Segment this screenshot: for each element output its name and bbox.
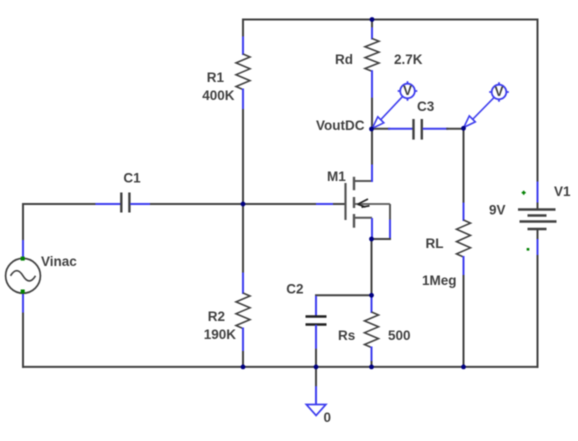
svg-text:V: V bbox=[403, 83, 412, 98]
svg-text:9V: 9V bbox=[489, 203, 506, 218]
svg-text:500: 500 bbox=[388, 328, 411, 343]
svg-text:C2: C2 bbox=[286, 282, 303, 297]
svg-text:1Meg: 1Meg bbox=[422, 273, 457, 288]
svg-text:190K: 190K bbox=[204, 327, 237, 342]
svg-text:Rd: Rd bbox=[335, 52, 353, 67]
svg-text:VoutDC: VoutDC bbox=[316, 118, 365, 133]
svg-text:C1: C1 bbox=[123, 171, 141, 186]
svg-text:RL: RL bbox=[426, 236, 444, 251]
svg-text:V1: V1 bbox=[554, 184, 571, 199]
svg-text:R2: R2 bbox=[208, 309, 225, 324]
svg-text:400K: 400K bbox=[202, 88, 235, 103]
svg-text:M1: M1 bbox=[327, 169, 346, 184]
svg-text:V: V bbox=[494, 84, 503, 99]
svg-text:C3: C3 bbox=[417, 99, 435, 114]
svg-text:R1: R1 bbox=[207, 70, 225, 85]
svg-text:Rs: Rs bbox=[338, 328, 355, 343]
svg-text:2.7K: 2.7K bbox=[394, 52, 423, 67]
svg-text:0: 0 bbox=[324, 410, 332, 425]
svg-text:Vinac: Vinac bbox=[41, 254, 77, 269]
